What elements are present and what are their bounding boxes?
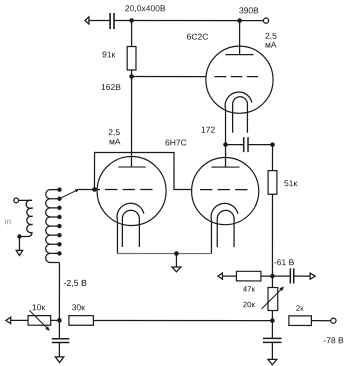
- transformer primary: [19, 200, 32, 236]
- wire node 162V to U2a anode: [131, 77, 133, 167]
- wire 6C2C anode: [239, 21, 241, 55]
- ground (bottom-right): [268, 359, 277, 364]
- wire grid link U2a to U2b: [94, 152, 191, 189]
- wire U2a cathode lead: [116, 220, 118, 253]
- node bottom-right: [270, 318, 275, 323]
- ground (cathode bus): [172, 267, 181, 272]
- terminal -78V: [331, 318, 336, 323]
- wire primary bottom: [18, 236, 20, 250]
- 6C2C cathode: [225, 92, 252, 109]
- wire to ground: [175, 254, 177, 267]
- wire R 91k to node 162V: [131, 70, 133, 77]
- wire U2b cathode lead: [210, 220, 212, 253]
- node bottom-left: [57, 318, 62, 323]
- terminal input: [14, 198, 19, 203]
- wire -61V node to R 20k: [271, 276, 273, 287]
- wire C2 to node 51k: [248, 144, 272, 146]
- capacitor C1 20,0x400B: [110, 13, 114, 29]
- terminal arrow right: [310, 273, 315, 279]
- terminal arrow 47k left: [218, 273, 223, 279]
- wire rail to R 91k: [131, 21, 133, 47]
- label 2,5 (U2a): [109, 129, 120, 136]
- wire node to R 51k: [272, 145, 274, 171]
- U2b heater: [217, 210, 234, 247]
- wire grid node stub: [94, 188, 99, 190]
- wire wiper to grid node: [78, 188, 94, 190]
- node U2a grid: [92, 187, 97, 192]
- label 51k: [284, 180, 297, 186]
- wire R 20k to bottom rail: [271, 311, 273, 321]
- resistor 20k (variable): [268, 288, 278, 311]
- node C2/51k: [270, 142, 275, 147]
- wire secondary bottom: [58, 263, 60, 321]
- label 6C2C: [187, 34, 208, 40]
- wire 6C2C cathode to node 172: [225, 109, 227, 145]
- resistor 2k: [289, 316, 312, 326]
- label 2,5 (6C2C): [265, 33, 276, 40]
- 6C2C heater: [233, 97, 248, 133]
- resistor 51k: [268, 171, 277, 195]
- label -61 V: [274, 259, 294, 265]
- U2a heater: [122, 210, 139, 247]
- wire top rail: [114, 19, 263, 21]
- U2a grid (dashed): [105, 188, 153, 190]
- terminal arrow top-left: [85, 17, 89, 24]
- wire bottom rail: [93, 319, 272, 321]
- wire R 47k to C3: [261, 275, 290, 277]
- tube U2b envelope: [192, 157, 259, 224]
- label mA (U2a): [110, 139, 121, 145]
- terminal arrow bottom-left: [6, 317, 11, 323]
- wire terminal to R 10k: [11, 319, 28, 321]
- wire R 51k to node -61V: [271, 194, 273, 276]
- wire terminal to C1: [89, 19, 110, 21]
- node cathode bus: [174, 251, 179, 256]
- label -2,5 V: [64, 280, 87, 287]
- node top rail / 6C2C anode: [237, 18, 242, 23]
- wire R 10k to node: [51, 319, 60, 321]
- 6C2C grid (dashed): [215, 76, 258, 78]
- capacitor C2: [244, 137, 248, 152]
- U2b cathode: [211, 203, 238, 220]
- node 162V: [129, 74, 134, 79]
- wire U2b anode: [225, 145, 227, 167]
- label 2k: [296, 305, 303, 310]
- label 20,0x400B: [125, 5, 165, 12]
- resistor 91k: [127, 46, 136, 70]
- label 172: [202, 127, 215, 133]
- wire node 172 to C2: [226, 144, 244, 146]
- wire cathode bus: [117, 252, 211, 254]
- label 20k: [243, 302, 255, 308]
- node -61V: [270, 274, 275, 279]
- terminal 390V: [263, 18, 268, 23]
- resistor 30k: [69, 316, 94, 326]
- resistor 47k: [236, 271, 261, 281]
- resistor 10k (variable): [28, 316, 51, 326]
- node primary bottom: [17, 234, 21, 238]
- U2b anode plate: [212, 166, 240, 168]
- label in: [5, 218, 11, 224]
- secondary taps: [57, 187, 61, 255]
- wire C3 to terminal: [294, 275, 310, 277]
- label 91k: [102, 51, 115, 57]
- wire input to primary: [19, 199, 31, 201]
- ground (primary): [16, 250, 23, 255]
- wire node to C5: [271, 321, 273, 339]
- label 6N7C: [165, 140, 186, 146]
- label 47k: [243, 286, 255, 291]
- U2b grid (dashed): [200, 189, 248, 191]
- tube 6C2C envelope: [206, 46, 273, 113]
- tube U2a envelope: [97, 156, 166, 225]
- wire node to C4: [58, 320, 60, 338]
- transformer secondary: [46, 190, 60, 263]
- capacitor C3: [290, 268, 293, 283]
- wire node 162V to 6C2C grid: [132, 76, 206, 78]
- label -78 V: [324, 337, 344, 343]
- wire 2k to terminal: [311, 320, 330, 322]
- label 162V: [102, 84, 121, 90]
- 6C2C anode plate: [225, 54, 253, 56]
- capacitor C5: [263, 338, 282, 342]
- U2a anode plate: [118, 166, 146, 168]
- label mA (6C2C): [266, 42, 277, 48]
- wire C5 to ground: [271, 342, 273, 359]
- wire C4 to ground: [58, 343, 60, 357]
- node top rail / 91k: [129, 18, 134, 23]
- wire terminal to R 47k: [222, 275, 236, 277]
- U2a cathode: [117, 203, 144, 220]
- label 390V: [239, 7, 258, 13]
- ground (bottom-left): [55, 357, 64, 363]
- label 30k: [72, 304, 85, 310]
- capacitor C4: [52, 339, 70, 343]
- node 172: [223, 142, 228, 147]
- label 10k: [33, 304, 46, 310]
- switch arm wiper: [59, 190, 78, 199]
